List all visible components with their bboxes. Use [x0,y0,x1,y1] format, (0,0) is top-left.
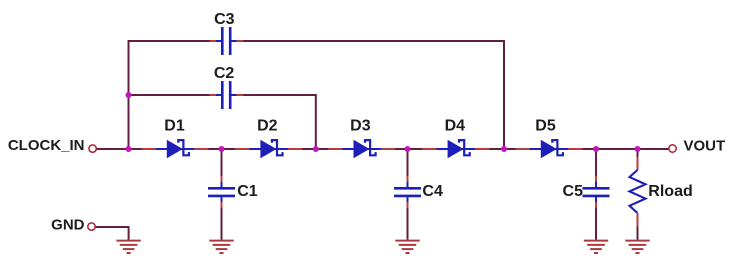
svg-text:Rload: Rload [648,183,692,200]
svg-text:D3: D3 [350,117,371,134]
svg-text:D5: D5 [535,117,556,134]
svg-text:C4: C4 [422,183,443,200]
svg-text:C3: C3 [214,11,235,28]
svg-text:C1: C1 [237,183,258,200]
svg-text:D1: D1 [164,117,185,134]
svg-text:VOUT: VOUT [684,138,726,155]
svg-text:D2: D2 [257,117,278,134]
svg-text:C2: C2 [214,65,235,82]
svg-text:C5: C5 [563,183,584,200]
svg-text:CLOCK_IN: CLOCK_IN [8,137,85,154]
svg-text:GND: GND [51,217,85,234]
svg-text:D4: D4 [445,117,466,134]
